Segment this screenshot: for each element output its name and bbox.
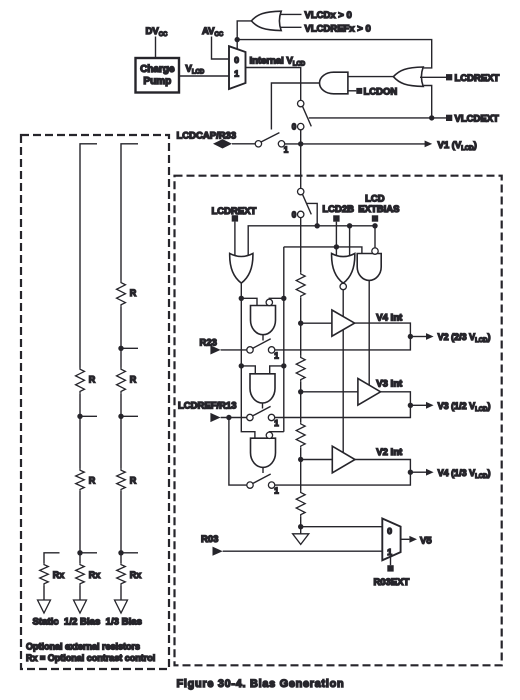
pin LCD2B bbox=[333, 215, 339, 221]
wire G1 input VLCDx bbox=[280, 13, 302, 15]
and-gate G6 (EXTBIAS select) bbox=[357, 254, 381, 281]
svg-text:1: 1 bbox=[274, 419, 279, 428]
junction G4 column / TG2 bbox=[239, 363, 244, 368]
junction chain2 tap1 + stub bbox=[77, 414, 82, 419]
wire LCDREXT pin to G4 input bbox=[234, 222, 236, 259]
charge pump U1 bbox=[136, 58, 180, 93]
resistor Rx (1/2 bias) bbox=[76, 563, 85, 585]
svg-text:LCDCAP/R33: LCDCAP/R33 bbox=[177, 131, 237, 142]
junction V2 output bbox=[408, 334, 413, 339]
junction LCD2B / rail2 bbox=[334, 244, 339, 249]
resistor Rx (static) bbox=[40, 563, 49, 585]
junction VLCDEXT rail / G2 input bbox=[429, 115, 434, 120]
arrow V3 output bbox=[410, 404, 426, 406]
wire B3 output to V4 bbox=[355, 460, 410, 473]
wire chain2 to arrow bbox=[79, 585, 81, 600]
wire B2 output to V3 bbox=[381, 392, 411, 406]
svg-text:Charge: Charge bbox=[140, 64, 175, 75]
switch SW3 (V1 chain top) bbox=[298, 188, 304, 194]
wire V2int tap to buffer B3 bbox=[301, 459, 333, 461]
wire DVcc to charge pump bbox=[155, 37, 157, 59]
pin R03 bbox=[213, 547, 223, 556]
and-gate G3 (LCDON gating) bbox=[320, 72, 348, 94]
wire chain3 seg2 bbox=[120, 307, 122, 368]
wire TG2 output stem bbox=[262, 403, 264, 409]
svg-text:V2 int: V2 int bbox=[376, 447, 403, 458]
pin R03EXT bbox=[387, 565, 393, 571]
wire V3 row to output bbox=[275, 405, 411, 417]
junction ladder bottom node bbox=[298, 524, 303, 529]
wire chain1 to arrow bbox=[43, 585, 45, 600]
wire ladder bottom bbox=[300, 517, 302, 534]
or-gate G1 (VLCDx/VLCDREFx) bbox=[251, 11, 281, 30]
svg-text:V3 int: V3 int bbox=[376, 379, 403, 390]
arrow static output bbox=[38, 600, 51, 613]
svg-text:0: 0 bbox=[387, 526, 392, 536]
arrow 1/2 bias output bbox=[74, 600, 87, 613]
wire G2 output to AND G3 input bbox=[348, 76, 394, 78]
wire G1 input VLCDREFx bbox=[281, 26, 302, 28]
svg-text:R: R bbox=[89, 375, 96, 385]
junction chain3 tap1 + stub bbox=[118, 346, 123, 351]
svg-text:Rx: Rx bbox=[130, 570, 142, 580]
wire R13 to switch SW5 bbox=[221, 417, 247, 419]
resistor R (1/3 bias top) bbox=[117, 281, 126, 307]
wire G4 output column bbox=[241, 298, 255, 438]
pin R23 bbox=[210, 345, 220, 354]
pin VLCDEXT bbox=[446, 115, 452, 121]
svg-text:R: R bbox=[130, 288, 137, 298]
wire G5 output to B1/B3 enable bbox=[342, 290, 344, 317]
wire AVcc to mux input 0 bbox=[212, 37, 230, 60]
junction V3 output bbox=[408, 403, 413, 408]
svg-text:LCDREXT: LCDREXT bbox=[212, 206, 257, 217]
svg-text:LCDON: LCDON bbox=[364, 87, 398, 98]
wire ladder top segment bbox=[300, 218, 302, 273]
bubble G6 inverted input bbox=[372, 248, 378, 254]
wire G4 output bbox=[240, 283, 242, 298]
ground symbol bbox=[293, 534, 309, 545]
svg-text:V5: V5 bbox=[420, 535, 432, 546]
wire G3 input LCDON bbox=[348, 90, 356, 92]
wire G6 output to B2 enable bbox=[368, 280, 370, 385]
wire VLCDEXT rail bbox=[309, 117, 446, 119]
mux U2 (VLCD source select) bbox=[229, 46, 246, 89]
svg-text:R: R bbox=[130, 476, 137, 486]
wire bias rail (LCDREXT/EXTBIAS) bbox=[248, 226, 375, 259]
wire chain2 lower bbox=[79, 491, 81, 563]
svg-text:R03EXT: R03EXT bbox=[373, 577, 409, 588]
resistor ladder R1 bbox=[296, 272, 305, 298]
wire R03 to mux U3 input 1 bbox=[223, 550, 383, 552]
svg-text:V4 int: V4 int bbox=[376, 313, 403, 324]
wire ladder seg3 bbox=[300, 382, 302, 423]
wire SW1 contact 0 to V1 rail bbox=[300, 130, 302, 144]
junction G1 output node bbox=[235, 37, 240, 42]
transgate control TG1 bbox=[241, 298, 257, 305]
svg-text:Pump: Pump bbox=[143, 76, 171, 87]
svg-text:1: 1 bbox=[234, 69, 239, 79]
resistor Rx (1/3 bias) bbox=[117, 563, 126, 585]
junction rail2 column / TG2 bbox=[281, 363, 286, 368]
junction R13 branch bbox=[226, 415, 231, 420]
svg-text:R03: R03 bbox=[201, 534, 218, 545]
svg-text:EXTBIAS: EXTBIAS bbox=[358, 204, 399, 215]
switch SW4 (R23 tap) bbox=[247, 339, 275, 353]
junction EXTBIAS on rail bbox=[372, 223, 377, 228]
svg-text:LCDREF/R13: LCDREF/R13 bbox=[178, 400, 237, 411]
wire B1 output to V2 bbox=[355, 323, 411, 336]
switch SW5 (R13 tap) bbox=[247, 406, 275, 420]
svg-text:1: 1 bbox=[284, 145, 289, 154]
junction NOR input on rail bbox=[347, 223, 352, 228]
wire V3int tap to buffer B2 bbox=[301, 391, 358, 393]
nor-gate G5 (LCD2B select) bbox=[332, 254, 355, 284]
junction G4 output node bbox=[239, 296, 244, 301]
wire chain3 seg4 bbox=[120, 491, 122, 563]
wire V1 rail bbox=[285, 143, 425, 145]
junction ladder V2int tap bbox=[298, 457, 303, 462]
arrow V2 output bbox=[410, 336, 426, 338]
wire chain3 seg3 bbox=[120, 393, 122, 469]
wire rail2 branch down (inverter column) bbox=[283, 247, 285, 432]
wire NOR G5 right input from rail bbox=[349, 226, 351, 259]
arrow 1/3 bias output bbox=[115, 600, 128, 613]
svg-text:R: R bbox=[89, 476, 96, 486]
pin EXTBIAS bbox=[372, 215, 378, 221]
resistor ladder R4 bbox=[296, 491, 305, 517]
svg-text:1/3 Bias: 1/3 Bias bbox=[106, 617, 142, 628]
wire chain2 top hook bbox=[80, 144, 97, 368]
wire EXTBIAS to G6 inverted input bbox=[374, 226, 376, 248]
svg-text:Rx: Rx bbox=[89, 570, 101, 580]
pin LCDCAP/R33 diamond bbox=[213, 139, 232, 148]
pin LCDON bbox=[356, 88, 362, 94]
main bias generator dashed box bbox=[175, 176, 502, 666]
junction V4 output bbox=[408, 470, 413, 475]
svg-text:0: 0 bbox=[234, 55, 239, 65]
pin LCDREF/R13 bbox=[210, 413, 220, 422]
junction chain3 tap3 + stub bbox=[118, 550, 123, 555]
svg-text:R: R bbox=[130, 375, 137, 385]
wire Internal VLCD mux output bbox=[246, 68, 301, 101]
svg-text:VLCDREFx > 0: VLCDREFx > 0 bbox=[305, 23, 371, 34]
svg-text:LCDREXT: LCDREXT bbox=[455, 73, 500, 84]
junction V1 rail bbox=[298, 141, 303, 146]
bubble TG1 inverted input bbox=[266, 299, 272, 305]
svg-text:Figure 30-4. Bias Generation: Figure 30-4. Bias Generation bbox=[177, 678, 345, 690]
wire G2 bottom input from VLCDEXT rail bbox=[424, 86, 432, 118]
svg-text:Static: Static bbox=[33, 617, 60, 628]
wire R03EXT select bbox=[390, 557, 392, 566]
resistor R (1/2 bias top) bbox=[76, 368, 85, 394]
transgate control TG3 bbox=[269, 431, 283, 434]
arrow V5 output bbox=[409, 536, 417, 543]
svg-text:1: 1 bbox=[274, 351, 279, 360]
svg-text:R23: R23 bbox=[200, 338, 217, 349]
transgate control TG2 bbox=[241, 366, 255, 374]
arrow V1 output bbox=[425, 141, 433, 148]
wire LCDCAP pin to switch SW2 bbox=[232, 143, 255, 145]
wire chain1 top hook bbox=[44, 553, 60, 563]
wire R13 down to SW6 bbox=[229, 418, 247, 486]
wire R23 to switch SW4 bbox=[221, 349, 247, 351]
svg-text:Rx = Optional contrast control: Rx = Optional contrast control bbox=[26, 653, 155, 663]
wire rail2 (LCD2B) bbox=[284, 247, 362, 255]
junction ladder V4int tap bbox=[298, 321, 303, 326]
or-gate G4 (REXT enable) bbox=[230, 253, 253, 283]
wire chain3 to arrow bbox=[120, 585, 122, 600]
wire mux U3 output bbox=[401, 538, 410, 540]
wire V2 row to output bbox=[275, 337, 411, 350]
switch SW6 (V4 tap) bbox=[247, 474, 275, 488]
svg-text:Rx: Rx bbox=[53, 570, 65, 580]
pin LCDREXT internal bbox=[232, 215, 238, 221]
svg-text:1: 1 bbox=[274, 487, 279, 496]
optional external resistors dashed box bbox=[21, 135, 169, 669]
buffer B1 (V4 int) bbox=[332, 310, 355, 336]
wire internal VLCD into box bbox=[300, 144, 302, 189]
wire ladder seg2 bbox=[300, 298, 302, 356]
switch SW2 (LCDCAP to V1) bbox=[255, 141, 261, 147]
svg-text:LCD: LCD bbox=[365, 193, 385, 204]
arrow V4 output bbox=[410, 471, 426, 473]
junction SW3 contact on rail bbox=[315, 223, 320, 228]
wire ladder seg4 bbox=[300, 448, 302, 491]
junction rail2 column / TG1 bbox=[281, 296, 286, 301]
wire VLCD charge pump output to mux input 1 bbox=[179, 75, 229, 77]
wire ladder bottom to mux U3 input 0 bbox=[301, 526, 383, 528]
svg-text:Optional external resistors: Optional external resistors bbox=[26, 642, 140, 652]
resistor R (1/2 bias bottom) bbox=[76, 469, 85, 491]
svg-text:1: 1 bbox=[387, 547, 392, 557]
wire G2 middle input to LCDREXT pin bbox=[420, 76, 446, 78]
resistor R (1/3 bias bottom) bbox=[117, 469, 126, 491]
node 1 contact SW2 bbox=[278, 141, 284, 147]
resistor ladder R2 bbox=[296, 356, 305, 382]
wire TG3 output stem bbox=[262, 467, 264, 473]
wire G3 output to switch SW2 control bbox=[271, 83, 319, 130]
svg-text:VLCDEXT: VLCDEXT bbox=[455, 114, 500, 125]
junction chain3 tap2 + stub bbox=[118, 414, 123, 419]
bubble TG3 inverted input bbox=[266, 432, 272, 438]
wire chain2 mid bbox=[79, 393, 81, 469]
or-gate G2 (external bias enable) bbox=[393, 67, 423, 86]
svg-text:0: 0 bbox=[292, 122, 297, 131]
buffer B3 (V2 int) bbox=[332, 446, 355, 473]
junction chain2 tap2 + stub bbox=[77, 550, 82, 555]
wire LCD2B to rail2 and NOR G5 input bbox=[335, 222, 337, 259]
resistor ladder R3 bbox=[296, 422, 305, 448]
junction ladder V3int tap bbox=[298, 389, 303, 394]
wire TG1 output stem bbox=[262, 335, 264, 341]
wire G1 output to mux select bbox=[237, 21, 251, 49]
wire V4int tap to buffer B1 bbox=[301, 322, 332, 324]
buffer B2 (V3 int) bbox=[358, 379, 381, 406]
wire G1 output rail to G2 top input bbox=[237, 40, 432, 68]
wire chain3 top hook bbox=[121, 144, 138, 281]
mux U3 (V5 select) bbox=[382, 519, 400, 561]
pin LCDREXT bbox=[446, 74, 452, 80]
svg-text:1/2 Bias: 1/2 Bias bbox=[64, 617, 100, 628]
wire V4 row to output bbox=[275, 472, 411, 485]
svg-text:VLCDx > 0: VLCDx > 0 bbox=[305, 10, 352, 21]
svg-text:0: 0 bbox=[292, 210, 297, 219]
resistor R (1/3 bias mid) bbox=[117, 368, 126, 394]
wire SW3 right contact to bias rail bbox=[307, 203, 318, 225]
switch SW1 (internal VLCD to V1 / VLCDEXT) bbox=[298, 100, 304, 106]
svg-text:LCD2B: LCD2B bbox=[322, 204, 354, 215]
